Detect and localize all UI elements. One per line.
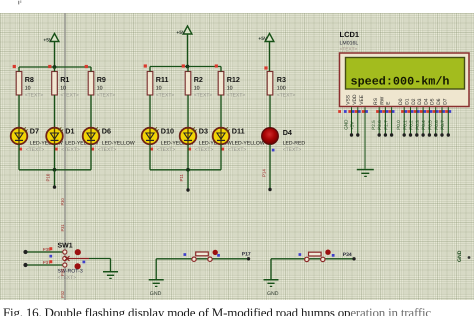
svg-text:D10: D10 xyxy=(161,127,174,136)
svg-text:10: 10 xyxy=(227,86,233,92)
wire: group1 top rail xyxy=(19,66,91,68)
svg-text:SW1: SW1 xyxy=(58,242,73,249)
svg-text:D7: D7 xyxy=(442,98,448,105)
svg-text:<TEXT>: <TEXT> xyxy=(97,93,116,99)
svg-text:LM016L: LM016L xyxy=(340,41,359,47)
svg-text:R3: R3 xyxy=(277,75,286,84)
node P11 junction + stub xyxy=(186,168,190,192)
button2 state marks xyxy=(299,250,335,257)
svg-text:<TEXT>: <TEXT> xyxy=(195,147,214,153)
net label P11 xyxy=(179,173,184,181)
svg-text:D1: D1 xyxy=(405,98,411,105)
axis net label fragments xyxy=(60,198,65,206)
svg-text:P10: P10 xyxy=(46,173,51,181)
ground (LCD VEE) xyxy=(357,169,374,177)
svg-text:<TEXT>: <TEXT> xyxy=(61,147,80,153)
LED D4 LED-RED xyxy=(262,128,306,154)
LCD pin VDD xyxy=(350,94,361,137)
svg-text:+5V: +5V xyxy=(258,36,267,42)
svg-text:10: 10 xyxy=(194,86,200,92)
LCD pin D6 xyxy=(434,98,445,136)
SW1 pole 2 wire xyxy=(23,263,63,267)
resistor R11 10 xyxy=(147,67,174,128)
LED D7 LED-YELLOW xyxy=(11,127,63,170)
svg-text:P11: P11 xyxy=(179,173,184,181)
svg-text:VEE: VEE xyxy=(359,94,365,105)
svg-text:+5V: +5V xyxy=(43,38,52,44)
resistor R1 10 xyxy=(52,67,79,128)
svg-text:<TEXT>: <TEXT> xyxy=(60,93,79,99)
svg-text:P0.5: P0.5 xyxy=(428,120,433,130)
wire: group1 bottom rail xyxy=(19,169,91,171)
LCD pin D5 xyxy=(428,98,439,136)
svg-text:R8: R8 xyxy=(25,75,34,84)
svg-text:D1: D1 xyxy=(65,127,74,136)
LCD pin D3 xyxy=(415,98,426,136)
svg-text:speed:000-km/h: speed:000-km/h xyxy=(351,75,450,88)
LCD pin RS xyxy=(371,97,382,136)
net label P17 xyxy=(242,252,251,258)
SW1 wiper cross xyxy=(64,256,89,261)
svg-text:<TEXT>: <TEXT> xyxy=(157,147,176,153)
svg-text:LED-YELLOW: LED-YELLOW xyxy=(102,140,135,146)
svg-text:<TEXT>: <TEXT> xyxy=(25,93,44,99)
red marker at R3 top xyxy=(264,66,267,69)
net label P10 xyxy=(46,173,51,181)
LED D11 LED-YELLOW xyxy=(213,127,265,170)
LED D10 LED-YELLOW xyxy=(142,127,194,170)
svg-text:<TEXT>: <TEXT> xyxy=(227,93,246,99)
ground (button2) xyxy=(264,279,279,297)
svg-text:P2.5: P2.5 xyxy=(371,120,376,130)
svg-text:P0.1: P0.1 xyxy=(402,120,407,130)
svg-text:P14: P14 xyxy=(261,169,266,177)
SW1 red indicator dots xyxy=(75,249,81,269)
LCD pin D7 xyxy=(440,98,451,136)
wire: group2 top rail xyxy=(150,66,221,68)
svg-text:RS: RS xyxy=(373,97,379,105)
SW1 contacts xyxy=(63,250,67,267)
resistor R9 10 xyxy=(88,67,115,128)
svg-text:GND: GND xyxy=(150,291,162,297)
svg-text:D6: D6 xyxy=(102,127,111,136)
svg-text:R1: R1 xyxy=(60,75,69,84)
svg-text:VSS: VSS xyxy=(346,94,352,105)
LED D1 LED-YELLOW xyxy=(46,127,98,170)
LCD pin VEE xyxy=(359,94,368,169)
LCD pin VSS xyxy=(343,94,354,136)
svg-text:LED-YELLOW: LED-YELLOW xyxy=(232,140,265,146)
button1 state marks xyxy=(184,250,220,257)
LCD pin D4 xyxy=(421,98,432,136)
svg-text:D6: D6 xyxy=(436,98,442,105)
node P14 stub xyxy=(268,144,271,191)
svg-text:<TEXT>: <TEXT> xyxy=(228,147,247,153)
red marker at R2 top xyxy=(182,64,185,67)
svg-text:R12: R12 xyxy=(227,75,240,84)
svg-text:LED-RED: LED-RED xyxy=(283,141,306,147)
resistor R3 100 xyxy=(267,72,295,128)
svg-text:P30: P30 xyxy=(60,198,65,206)
svg-text:P2.7: P2.7 xyxy=(383,120,388,130)
LCD pin D1 xyxy=(402,98,413,136)
svg-text:<TEXT>: <TEXT> xyxy=(283,147,302,153)
junction dot group2 top xyxy=(186,65,190,69)
svg-text:<TEXT>: <TEXT> xyxy=(26,147,45,153)
power +5V (group 2) xyxy=(176,26,192,67)
SW1 blue squares xyxy=(49,255,85,264)
svg-text:RW: RW xyxy=(379,96,385,104)
svg-text:10: 10 xyxy=(60,86,66,92)
net label P14 xyxy=(261,169,266,177)
svg-text:D3: D3 xyxy=(417,98,423,105)
svg-text:LCD1: LCD1 xyxy=(340,30,360,39)
LED D3 LED-YELLOW xyxy=(180,127,232,170)
LCD LCD1 labels xyxy=(340,30,360,52)
LCD pin D2 xyxy=(409,98,420,136)
svg-text:P0.2: P0.2 xyxy=(409,120,414,130)
LCD LM016L body U-LCD1 xyxy=(340,53,470,107)
resistor R12 10 xyxy=(218,67,245,128)
svg-text:<TEXT>: <TEXT> xyxy=(340,47,358,53)
svg-text:P0.7: P0.7 xyxy=(440,120,445,130)
red marker at R11 top xyxy=(144,64,147,67)
svg-text:P2.6: P2.6 xyxy=(377,120,382,130)
svg-text:GND: GND xyxy=(343,119,348,130)
svg-text:D5: D5 xyxy=(430,98,436,105)
svg-text:<TEXT>: <TEXT> xyxy=(156,93,175,99)
SW1 pole 1 wire xyxy=(23,250,63,254)
resistor R2 10 xyxy=(185,67,212,128)
net label P34 xyxy=(343,252,352,258)
LCD pin E xyxy=(383,101,394,137)
LCD pin RW xyxy=(377,96,388,136)
pushbutton 2 xyxy=(305,252,325,261)
svg-text:<TEXT>: <TEXT> xyxy=(277,93,296,99)
wire SW1 common to ground xyxy=(89,259,111,272)
svg-text:D11: D11 xyxy=(232,127,245,136)
svg-text:P0.0: P0.0 xyxy=(396,120,401,130)
svg-text:D3: D3 xyxy=(199,127,208,136)
stray text fragment above schematic xyxy=(18,0,21,4)
svg-text:D7: D7 xyxy=(30,127,39,136)
net label P35 xyxy=(43,247,53,252)
svg-text:D2: D2 xyxy=(411,98,417,105)
svg-text:+5V: +5V xyxy=(176,30,185,36)
svg-text:P31: P31 xyxy=(60,224,65,232)
red marker at R1 top xyxy=(48,65,51,68)
power +5V (R3 column) xyxy=(258,34,274,72)
svg-text:R9: R9 xyxy=(97,75,106,84)
switch SW1 labels xyxy=(58,242,73,249)
wire: group2 bottom rail xyxy=(150,169,221,171)
resistor R8 10 xyxy=(16,67,43,128)
net label P37 xyxy=(43,260,53,265)
LED D6 LED-YELLOW xyxy=(83,127,135,170)
svg-text:100: 100 xyxy=(277,86,286,92)
svg-text:P0.4: P0.4 xyxy=(421,120,426,130)
wire button2 net xyxy=(271,257,356,279)
svg-text:P33: P33 xyxy=(60,268,65,276)
svg-text:10: 10 xyxy=(156,86,162,92)
wire button1 net xyxy=(156,257,250,279)
svg-text:P17: P17 xyxy=(242,252,251,258)
junction dot group1 top xyxy=(53,65,57,69)
sheet origin axis line xyxy=(64,13,66,300)
svg-text:P0.3: P0.3 xyxy=(415,120,420,130)
svg-text:<TEXT>: <TEXT> xyxy=(194,93,213,99)
red marker at R9 top xyxy=(85,65,88,68)
blue state square D4 xyxy=(272,149,275,152)
red marker at R12 top xyxy=(215,64,218,67)
LCD pin D0 xyxy=(396,98,407,136)
LCD screen xyxy=(346,58,465,90)
red marker at R8 top xyxy=(13,65,16,68)
svg-text:P34: P34 xyxy=(343,252,352,258)
svg-text:<TEXT>: <TEXT> xyxy=(98,147,117,153)
svg-text:D4: D4 xyxy=(423,98,429,105)
svg-text:D4: D4 xyxy=(283,128,292,137)
pushbutton 1 xyxy=(192,252,212,261)
svg-text:10: 10 xyxy=(97,86,103,92)
svg-text:GND: GND xyxy=(267,291,279,297)
SW1 value labels xyxy=(58,268,83,280)
svg-text:D0: D0 xyxy=(398,98,404,105)
ground (SW1) xyxy=(103,271,118,279)
svg-text:R2: R2 xyxy=(194,75,203,84)
svg-text:P0.6: P0.6 xyxy=(434,120,439,130)
svg-text:R11: R11 xyxy=(156,75,169,84)
extra markers left of VSS xyxy=(338,110,346,113)
svg-text:10: 10 xyxy=(25,86,31,92)
ground (button1) xyxy=(149,279,164,297)
power +5V (group 1) xyxy=(43,34,58,68)
svg-text:P32: P32 xyxy=(60,290,65,298)
net label GND (right edge) xyxy=(457,250,470,262)
svg-text:GND: GND xyxy=(457,250,463,262)
svg-text:+5V: +5V xyxy=(350,121,355,130)
node P10 junction + stub xyxy=(53,168,57,189)
svg-text:VDD: VDD xyxy=(352,94,358,105)
LCD display text xyxy=(351,75,450,88)
figure caption xyxy=(3,306,473,316)
